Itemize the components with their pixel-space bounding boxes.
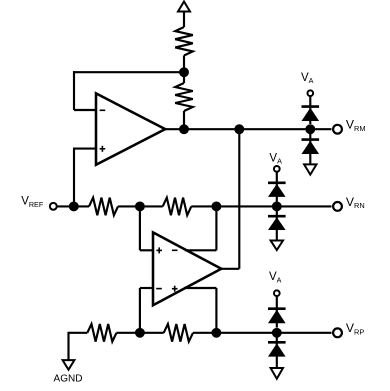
node: clamp diodes on VRP row: [272, 328, 282, 338]
resistor R5 (AGND input): [87, 324, 116, 342]
diode D1 (VRM to VA): [302, 97, 320, 125]
arrow to negative rail (VRN clamp): [271, 241, 283, 251]
wire U2 IN-: [140, 288, 153, 333]
terminal VRN: [333, 202, 342, 211]
svg-text:VRN: VRN: [346, 195, 365, 210]
svg-text:VA: VA: [269, 152, 282, 165]
wire U1 non-inverting input to VREF node: [73, 149, 96, 207]
svg-text:VA: VA: [301, 72, 314, 85]
terminal VA (VRN clamp): [274, 166, 280, 172]
wire R1 to node: [183, 56, 185, 73]
terminal VA (VRM clamp): [307, 90, 313, 96]
diode D2 (below VRM): [302, 129, 320, 164]
terminal VRP: [333, 328, 342, 337]
svg-text:VREF: VREF: [21, 196, 44, 209]
terminal VREF: [50, 203, 57, 210]
wire R2 to VRM row: [183, 111, 185, 129]
arrow to negative rail (VRP clamp): [271, 368, 283, 379]
svg-text:VA: VA: [269, 271, 282, 284]
op-amp U1: [96, 93, 165, 164]
node: VOCM tap on VRM row: [234, 124, 244, 134]
node: VREF / U1 + input: [69, 201, 79, 211]
node: clamp diodes on VRM row: [305, 124, 315, 134]
ground arrow AGND: [63, 360, 75, 370]
power supply arrow (top): [178, 2, 190, 28]
resistor R1 (top, to supply arrow): [175, 27, 193, 56]
wire VRP row to terminal: [193, 332, 332, 334]
node: U2 IN+ tap: [135, 201, 145, 211]
resistor R3 (VREF input): [89, 198, 118, 216]
node: U2 OUT+ tap: [211, 328, 221, 338]
diode D5 (VRP to VA): [268, 297, 286, 328]
wire R3 to R4: [118, 205, 163, 207]
wire U2 OUT- to feedback node: [185, 206, 216, 250]
wire U2 VOCM to VRM row: [220, 129, 239, 269]
resistor R6 (U2 feedback bottom): [164, 324, 193, 342]
op-amp U2 (fully differential): [153, 232, 221, 305]
diode D6 (below VRP): [268, 333, 286, 368]
wire feedback to op-amp U1 inverting input: [73, 71, 184, 110]
wire node to R2: [183, 72, 185, 83]
svg-text:VRM: VRM: [346, 118, 366, 133]
resistor R2 (feedback divider): [175, 83, 193, 111]
node: clamp diodes on VRN row: [272, 201, 282, 211]
wire U2 IN+: [140, 206, 153, 250]
node: U2 IN- tap: [135, 328, 145, 338]
diode D4 (below VRN): [268, 206, 286, 240]
wire VRN row to terminal: [191, 205, 331, 207]
wire VRM row (U1 output to VRM terminal): [165, 128, 332, 130]
node: R2 bottom on VRM row: [179, 124, 189, 134]
svg-text:AGND: AGND: [54, 374, 83, 385]
arrow to negative rail (VRM clamp): [304, 164, 316, 174]
node: U2 OUT- tap: [211, 201, 221, 211]
wire VREF terminal to R3: [57, 205, 90, 207]
wire R5 to R6: [117, 332, 164, 334]
svg-text:VRP: VRP: [346, 321, 364, 336]
wire U2 OUT+ to feedback node: [184, 288, 216, 333]
node: R1/R2/feedback junction: [179, 67, 189, 77]
wire AGND branch: [69, 332, 88, 360]
terminal VA (VRP clamp): [274, 290, 280, 296]
diode D3 (VRN to VA): [268, 172, 286, 202]
terminal VRM: [333, 125, 342, 134]
resistor R4 (U2 feedback top): [163, 198, 192, 216]
